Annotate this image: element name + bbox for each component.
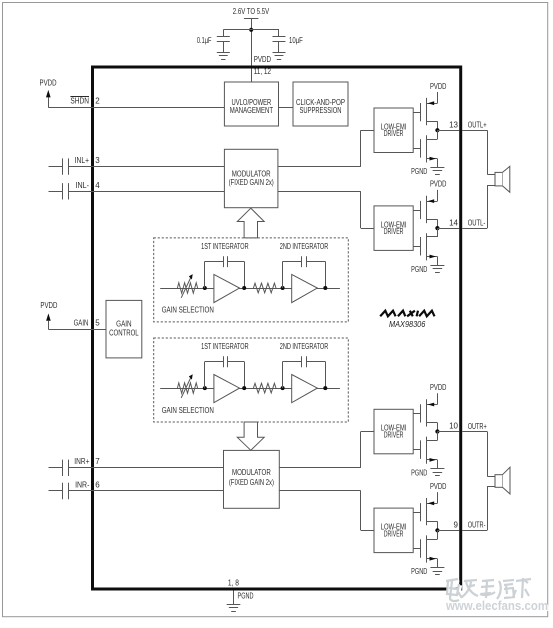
svg-text:DRIVER: DRIVER: [384, 227, 404, 236]
svg-text:9: 9: [454, 521, 459, 530]
dashed block gain-selection/integrators (L): [154, 238, 349, 322]
transistor Q2 NMOS low-side: [413, 130, 437, 167]
node integrator2 input (R): [281, 386, 285, 390]
pin 13: [449, 120, 458, 129]
svg-text:GAIN: GAIN: [74, 318, 89, 327]
net label OUTL+: [468, 121, 487, 130]
wire INL- stub: [49, 191, 63, 193]
ground PGND (OUTR+): [411, 468, 444, 477]
wire modulator L out- to driver: [278, 191, 374, 228]
svg-text:PVDD: PVDD: [430, 180, 447, 189]
wire INR- stub: [49, 490, 63, 492]
svg-text:13: 13: [449, 120, 458, 129]
node output pin 9: [435, 528, 439, 532]
power symbol PVDD (OUTR+): [430, 383, 447, 404]
svg-text:DRIVER: DRIVER: [384, 431, 404, 440]
svg-text:OUTL-: OUTL-: [468, 219, 486, 228]
label 1ST INTEGRATOR (L): [201, 242, 249, 251]
svg-text:OUTL+: OUTL+: [468, 121, 487, 130]
block modulator L: [224, 149, 278, 207]
svg-text:2ND INTEGRATOR: 2ND INTEGRATOR: [280, 342, 329, 351]
node output pin 13: [435, 128, 439, 132]
svg-text:MAX98306: MAX98306: [389, 320, 426, 329]
wire INL+ stub: [49, 166, 63, 168]
power symbol PVDD (OUTL+): [430, 82, 447, 103]
svg-text:INL-: INL-: [76, 181, 90, 190]
svg-text:PGND: PGND: [411, 167, 427, 176]
transistor Q1 PMOS high-side: [413, 98, 437, 130]
transistor Q8 NMOS low-side: [413, 530, 437, 567]
svg-text:PVDD: PVDD: [40, 301, 57, 310]
net label OUTL-: [468, 219, 486, 228]
arrow integrators to modulator R: [237, 422, 264, 450]
variable resistor gain-set (L): [177, 274, 197, 298]
logo MAXIM: [380, 311, 434, 317]
wire integrator signal path (R): [160, 388, 340, 390]
svg-text:2.6V TO 5.5V: 2.6V TO 5.5V: [233, 7, 270, 16]
pin 7 INR+: [95, 457, 100, 466]
capacitor feedback integrator2 (R): [283, 356, 326, 388]
wire capacitor branch: [223, 29, 279, 31]
node integrator2 output (L): [323, 286, 327, 290]
svg-text:www.elecfans.com: www.elecfans.com: [445, 598, 548, 613]
svg-text:MANAGEMENT: MANAGEMENT: [230, 106, 273, 115]
wire speaker L connections: [487, 130, 495, 228]
wire output outside (OUTR+): [462, 431, 487, 433]
node integrator1 input (L): [203, 286, 207, 290]
net label INR+: [74, 457, 89, 466]
wire SHDN: [48, 107, 224, 109]
svg-text:INL+: INL+: [75, 156, 90, 165]
svg-text:GAIN SELECTION: GAIN SELECTION: [162, 306, 214, 315]
block LOW-EMI DRIVER (OUTR-): [374, 508, 413, 552]
svg-text:CONTROL: CONTROL: [109, 328, 139, 337]
ground PGND (OUTL+): [411, 167, 444, 176]
junction supply node: [249, 28, 253, 32]
node integrator1 output (R): [242, 386, 246, 390]
wire INR+: [68, 467, 223, 469]
ground PGND (OUTL-): [411, 265, 444, 274]
resistor interstage (R): [253, 383, 276, 393]
net label SHDN (overline): [70, 97, 89, 106]
pin 5 GAIN: [95, 318, 100, 327]
transistor Q5 PMOS high-side: [413, 399, 437, 431]
ground (C1): [217, 53, 230, 60]
capacitor feedback integrator1 (R): [205, 356, 245, 388]
svg-text:PVDD: PVDD: [430, 482, 447, 491]
svg-text:PVDD: PVDD: [40, 79, 57, 88]
wire output inside (OUTL+): [437, 130, 459, 132]
speaker R: [495, 467, 510, 494]
wire INL+: [68, 166, 224, 168]
op-amp integrator1 (L): [214, 274, 240, 302]
block CLICK-AND-POP SUPPRESSION: [293, 82, 348, 126]
power symbol PVDD (SHDN pullup): [40, 79, 57, 108]
wire output inside (OUTL-): [437, 228, 459, 230]
transistor Q7 PMOS high-side: [413, 498, 437, 530]
wire integrator signal path (L): [160, 288, 340, 290]
net label INL+: [75, 156, 90, 165]
op-amp integrator2 (R): [292, 375, 318, 403]
block modulator R: [224, 450, 280, 508]
block LOW-EMI DRIVER (OUTL-): [374, 206, 413, 251]
node integrator1 input (R): [203, 386, 207, 390]
svg-text:PGND: PGND: [411, 468, 427, 477]
svg-text:PVDD: PVDD: [430, 82, 447, 91]
block UVLO/POWER MANAGEMENT: [224, 82, 278, 126]
block LOW-EMI DRIVER (OUTL+): [374, 108, 413, 153]
svg-text:PVDD: PVDD: [430, 383, 447, 392]
capacitor C1 0.1uF: [197, 30, 230, 52]
svg-text:14: 14: [449, 218, 458, 227]
ground (C2): [273, 53, 286, 60]
wire INR-: [68, 490, 223, 492]
wire PGND: [233, 591, 235, 605]
capacitor INR+ input: [63, 460, 69, 476]
node integrator2 input (L): [281, 286, 285, 290]
node output pin 10: [435, 429, 439, 433]
svg-text:10: 10: [449, 422, 458, 431]
wire PVDD supply vertical: [251, 19, 253, 82]
pin 3 INL+: [95, 156, 100, 165]
svg-text:10µF: 10µF: [289, 36, 303, 45]
power symbol PVDD (OUTL-): [430, 180, 447, 201]
svg-text:7: 7: [95, 457, 100, 466]
svg-text:1, 8: 1, 8: [228, 579, 239, 588]
svg-text:PGND: PGND: [411, 265, 427, 274]
wire output outside (OUTR-): [462, 530, 487, 532]
IC boundary MAX98306: [93, 67, 461, 589]
net label OUTR-: [468, 521, 486, 530]
wire speaker R connections: [487, 432, 495, 531]
transistor Q3 PMOS high-side: [413, 196, 437, 228]
watermark elecfans: [445, 578, 549, 614]
label 2ND INTEGRATOR (R): [280, 342, 329, 351]
svg-text:5: 5: [95, 318, 100, 327]
op-amp integrator1 (R): [214, 375, 240, 403]
svg-text:11, 12: 11, 12: [254, 67, 272, 76]
ground PGND (OUTR-): [411, 567, 444, 576]
pin 14: [449, 218, 458, 227]
supply rail 2.6V TO 5.5V: [233, 7, 270, 19]
svg-text:(FIXED GAIN 2x): (FIXED GAIN 2x): [229, 178, 274, 187]
power symbol PVDD (OUTR-): [430, 482, 447, 503]
svg-text:3: 3: [95, 156, 100, 165]
svg-text:1ST INTEGRATOR: 1ST INTEGRATOR: [201, 342, 249, 351]
pin 1, 8 PGND: [228, 579, 239, 588]
wire INR+ stub: [49, 467, 63, 469]
wire INL-: [68, 191, 224, 193]
block LOW-EMI DRIVER (OUTR+): [374, 409, 413, 454]
wire modulator R out+ to driver: [279, 432, 374, 468]
node output pin 14: [435, 226, 439, 230]
label MAX98306: [389, 320, 426, 329]
capacitor INL- input: [63, 183, 69, 199]
svg-text:GAIN: GAIN: [116, 319, 132, 328]
op-amp integrator2 (L): [292, 274, 318, 302]
svg-text:(FIXED GAIN 2x): (FIXED GAIN 2x): [229, 478, 274, 487]
node integrator1 output (L): [242, 286, 246, 290]
ground PGND (bottom): [227, 592, 254, 612]
pin 2 SHDN: [95, 97, 100, 106]
svg-text:SHDN: SHDN: [70, 97, 89, 106]
label 1ST INTEGRATOR (R): [201, 342, 249, 351]
svg-text:1ST INTEGRATOR: 1ST INTEGRATOR: [201, 242, 249, 251]
pin 11, 12 PVDD: [254, 67, 272, 76]
net label INR-: [75, 481, 90, 490]
capacitor INR- input: [63, 483, 69, 499]
svg-text:2: 2: [95, 97, 100, 106]
net label PVDD (top): [254, 55, 271, 64]
svg-text:MODULATOR: MODULATOR: [232, 468, 271, 477]
svg-text:INR+: INR+: [74, 457, 89, 466]
net label OUTR+: [468, 422, 487, 431]
net label INL-: [76, 181, 90, 190]
variable resistor gain-set (R): [177, 374, 197, 398]
wire modulator L out+ to driver: [278, 130, 374, 166]
svg-text:INR-: INR-: [75, 481, 90, 490]
capacitor feedback integrator1 (L): [205, 256, 245, 288]
net label GAIN: [74, 318, 89, 327]
svg-text:PGND: PGND: [238, 592, 254, 601]
capacitor INL+ input: [63, 158, 69, 174]
svg-text:2ND INTEGRATOR: 2ND INTEGRATOR: [280, 242, 329, 251]
svg-text:GAIN SELECTION: GAIN SELECTION: [162, 406, 214, 415]
pin 4 INL-: [95, 181, 100, 190]
speaker L: [495, 166, 510, 192]
pin 9: [454, 521, 459, 530]
svg-text:PGND: PGND: [411, 567, 427, 576]
wire output outside (OUTL+): [462, 130, 487, 132]
wire modulator R out- to driver: [279, 491, 374, 531]
svg-text:SUPPRESSION: SUPPRESSION: [300, 106, 342, 115]
svg-text:DRIVER: DRIVER: [384, 529, 404, 538]
transistor Q4 NMOS low-side: [413, 228, 437, 265]
pin 10: [449, 422, 458, 431]
capacitor C2 10uF: [273, 30, 303, 52]
label GAIN SELECTION (R): [162, 406, 214, 415]
svg-text:OUTR-: OUTR-: [468, 521, 486, 530]
transistor Q6 NMOS low-side: [413, 432, 437, 469]
label 2ND INTEGRATOR (L): [280, 242, 329, 251]
resistor interstage (L): [253, 283, 276, 293]
svg-text:PVDD: PVDD: [254, 55, 271, 64]
capacitor feedback integrator2 (L): [283, 256, 326, 288]
label GAIN SELECTION (L): [162, 306, 214, 315]
wire output inside (OUTR+): [437, 431, 459, 433]
pin 6 INR-: [95, 481, 100, 490]
svg-text:4: 4: [95, 181, 100, 190]
dashed block gain-selection/integrators (R): [154, 338, 349, 422]
wire GAIN: [48, 329, 106, 331]
svg-text:OUTR+: OUTR+: [468, 422, 487, 431]
wire output inside (OUTR-): [437, 530, 459, 532]
wire output outside (OUTL-): [462, 228, 487, 230]
node integrator2 output (R): [323, 386, 327, 390]
power symbol PVDD (GAIN pullup): [40, 301, 57, 329]
wire UVLO to click-and-pop: [279, 107, 294, 109]
block GAIN CONTROL: [106, 300, 142, 358]
arrow integrators to modulator L: [237, 208, 264, 238]
svg-text:0.1µF: 0.1µF: [197, 36, 212, 45]
svg-text:6: 6: [95, 481, 100, 490]
svg-text:DRIVER: DRIVER: [384, 129, 404, 138]
